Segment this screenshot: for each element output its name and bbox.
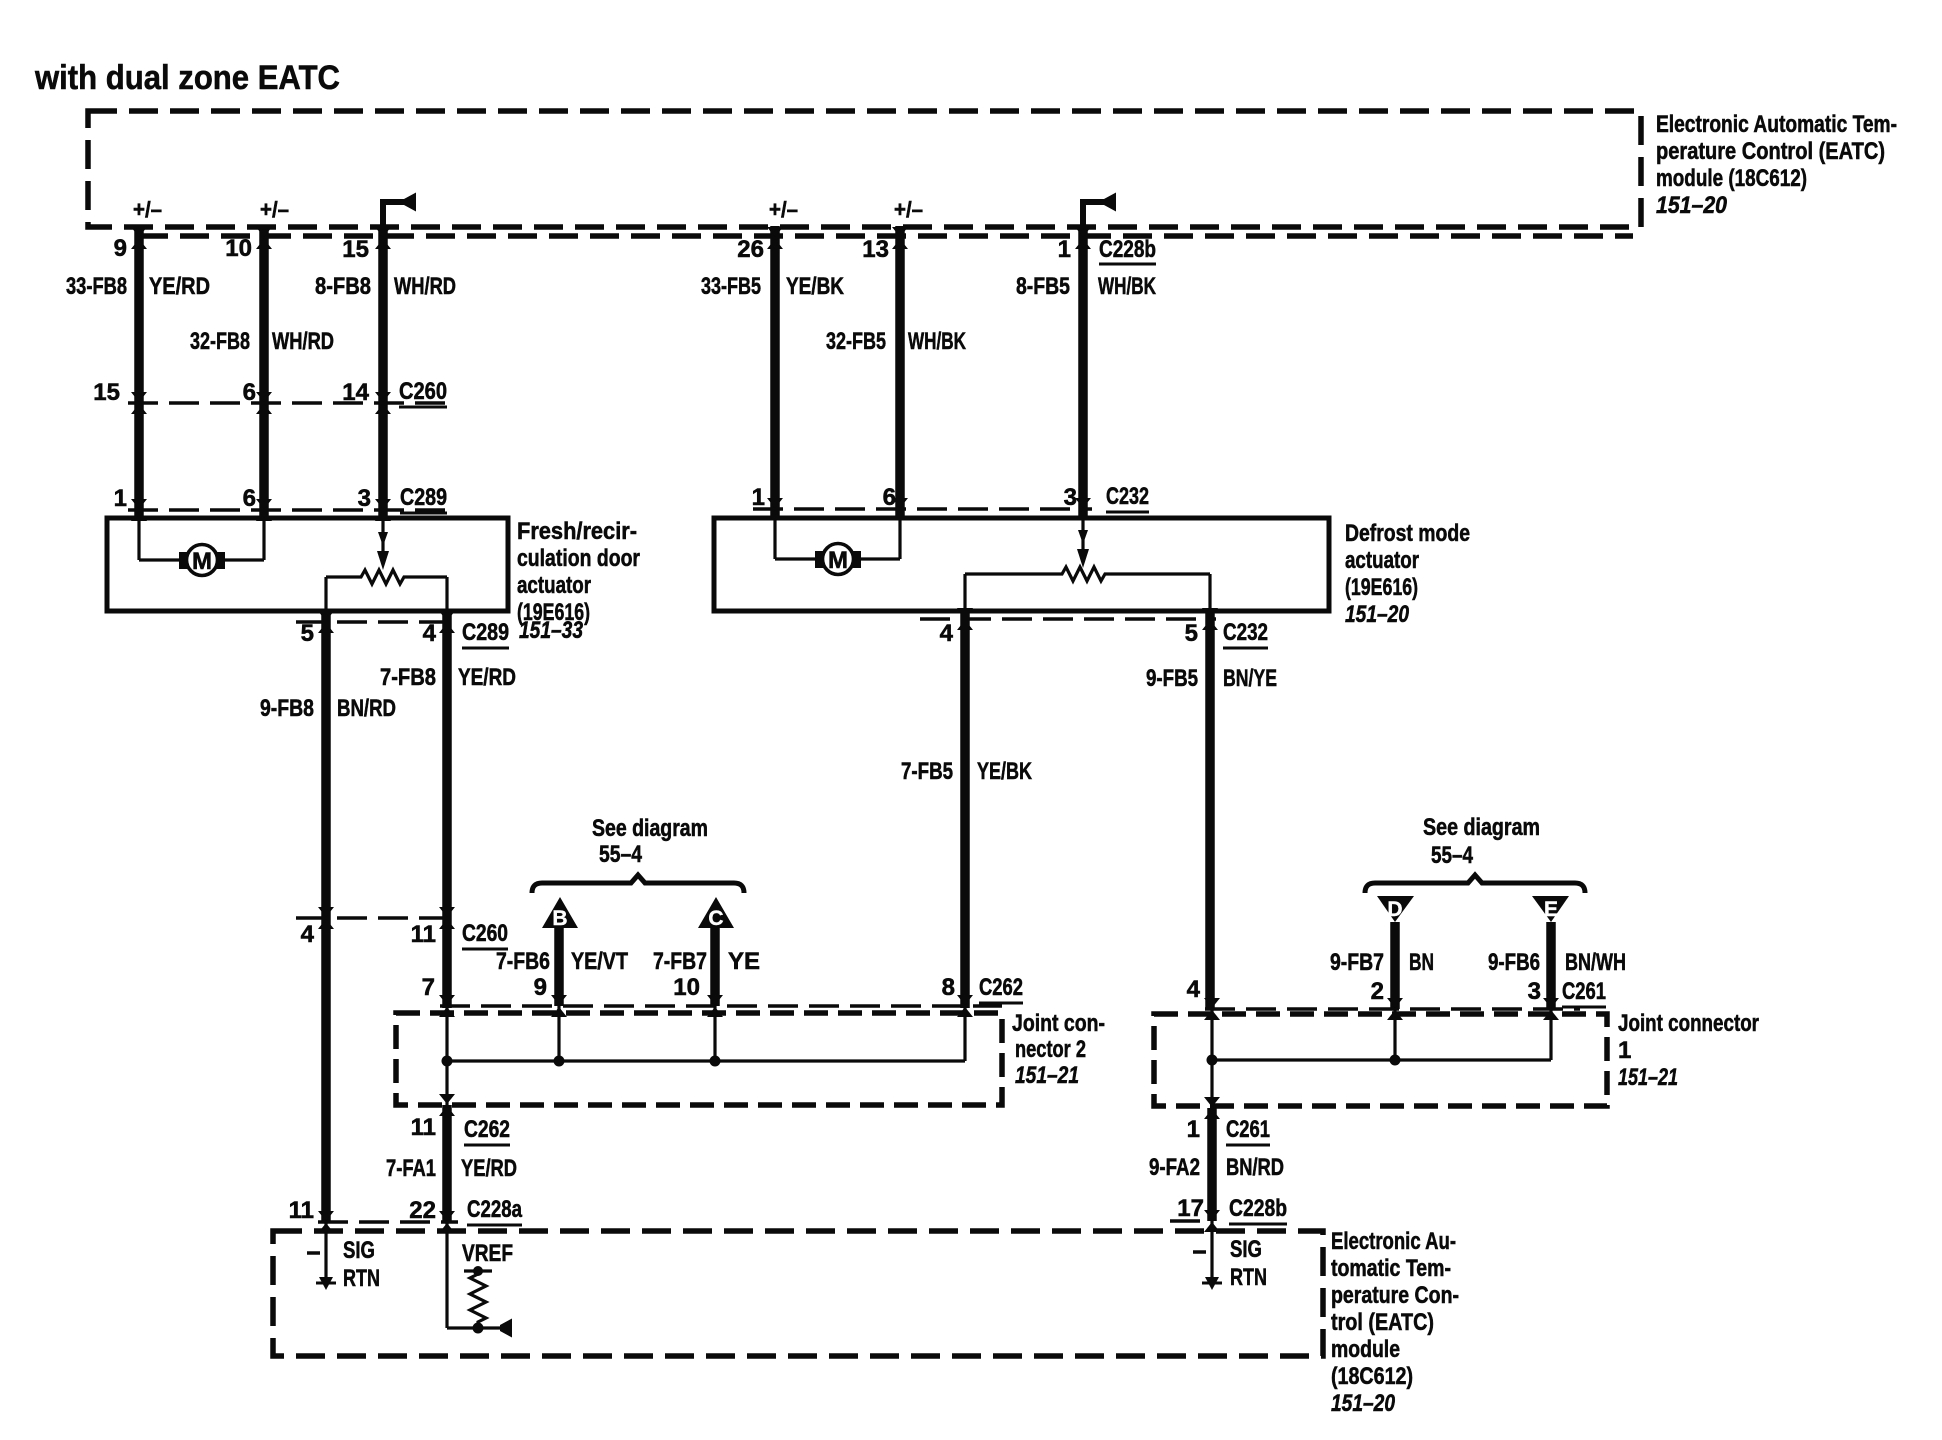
svg-text:tomatic Tem-: tomatic Tem-	[1331, 1255, 1451, 1282]
svg-text:6: 6	[243, 379, 256, 406]
potentiometer right actuator	[965, 518, 1210, 611]
triangle connector E	[1532, 896, 1569, 1009]
svg-text:BN: BN	[1409, 949, 1434, 976]
svg-text:trol (EATC): trol (EATC)	[1331, 1309, 1434, 1336]
svg-text:9-FB8: 9-FB8	[260, 695, 314, 722]
svg-text:4: 4	[1187, 976, 1201, 1003]
connector C232 name	[1106, 483, 1149, 512]
svg-text:C289: C289	[400, 484, 447, 511]
connector C232 name lower	[1223, 619, 1268, 648]
svg-text:33-FB8: 33-FB8	[66, 273, 127, 300]
joint connector 1 internal bus	[1207, 1009, 1552, 1108]
svg-text:6: 6	[243, 485, 256, 512]
feedback arrow above wire 15	[383, 193, 416, 232]
svg-text:See diagram: See diagram	[592, 815, 708, 842]
svg-text:YE/RD: YE/RD	[461, 1155, 517, 1182]
connector C289 line upper	[128, 508, 450, 512]
svg-text:26: 26	[737, 236, 764, 263]
label EATC module top right	[1656, 111, 1897, 219]
EATC module bottom dashed box	[273, 1231, 1323, 1356]
svg-text:7-FB5: 7-FB5	[901, 758, 953, 785]
svg-text:151–21: 151–21	[1618, 1064, 1678, 1091]
svg-text:BN/YE: BN/YE	[1223, 665, 1277, 692]
connector C228b top label	[1099, 236, 1156, 264]
svg-text:+/–: +/–	[133, 197, 162, 222]
motor M left actuator	[139, 518, 264, 576]
svg-text:WH/RD: WH/RD	[272, 328, 334, 355]
connector C228b name lower	[1229, 1195, 1287, 1224]
svg-text:M: M	[828, 547, 848, 574]
svg-text:11: 11	[411, 1114, 436, 1141]
triangle connector C	[698, 897, 734, 1006]
svg-text:(18C612): (18C612)	[1331, 1363, 1413, 1390]
triangle connector B	[542, 897, 578, 1006]
svg-text:13: 13	[862, 236, 889, 263]
svg-text:14: 14	[342, 379, 369, 406]
svg-text:7-FA1: 7-FA1	[386, 1155, 436, 1182]
svg-text:22: 22	[409, 1197, 436, 1224]
svg-text:C262: C262	[979, 974, 1023, 1001]
svg-text:9-FB7: 9-FB7	[1330, 949, 1384, 976]
svg-text:C261: C261	[1226, 1116, 1270, 1143]
svg-text:7: 7	[422, 974, 435, 1001]
potentiometer left actuator	[326, 518, 447, 611]
svg-text:8-FB8: 8-FB8	[315, 273, 371, 300]
feedback arrow above wire 1 (C228b)	[1083, 193, 1116, 232]
svg-text:perature Con-: perature Con-	[1331, 1282, 1459, 1309]
svg-text:7-FB7: 7-FB7	[653, 948, 707, 975]
svg-text:Fresh/recir-: Fresh/recir-	[517, 518, 637, 545]
svg-text:4: 4	[940, 620, 954, 647]
svg-text:RTN: RTN	[343, 1265, 380, 1292]
svg-text:C228b: C228b	[1229, 1195, 1287, 1222]
svg-text:4: 4	[423, 620, 437, 647]
svg-text:C261: C261	[1562, 978, 1606, 1005]
svg-text:11: 11	[289, 1197, 314, 1224]
svg-text:4: 4	[301, 921, 315, 948]
svg-text:8-FB5: 8-FB5	[1016, 273, 1070, 300]
triangle connector D	[1377, 896, 1414, 1009]
Joint connector 2 dashed box	[396, 1013, 1002, 1105]
wire 7-FB5 YE/BK	[960, 611, 970, 1008]
svg-text:8: 8	[942, 974, 955, 1001]
connector C262 name	[979, 974, 1023, 1003]
svg-text:32-FB8: 32-FB8	[190, 328, 250, 355]
svg-text:9-FB6: 9-FB6	[1488, 949, 1540, 976]
svg-text:Joint connector: Joint connector	[1618, 1010, 1759, 1037]
svg-text:33-FB5: 33-FB5	[701, 273, 761, 300]
svg-text:32-FB5: 32-FB5	[826, 328, 886, 355]
svg-text:3: 3	[1528, 978, 1541, 1005]
svg-text:7-FB6: 7-FB6	[496, 948, 550, 975]
wire 32-FB8 WH/RD (pin 10)	[259, 226, 269, 518]
wire 9-FA2 BN/RD	[1207, 1108, 1217, 1221]
svg-text:perature Control (EATC): perature Control (EATC)	[1656, 138, 1885, 165]
svg-text:B: B	[552, 907, 567, 930]
svg-text:C260: C260	[399, 378, 447, 405]
svg-text:BN/WH: BN/WH	[1565, 949, 1626, 976]
wire 7-FB8 YE/RD	[442, 611, 452, 1008]
svg-text:3: 3	[358, 485, 371, 512]
svg-text:151–20: 151–20	[1656, 192, 1728, 219]
wire 33-FB5 YE/BK (pin 26)	[770, 226, 780, 518]
svg-text:C232: C232	[1223, 619, 1268, 646]
connector C228a name	[467, 1196, 522, 1225]
connector C262 pin line	[440, 1004, 1002, 1008]
svg-text:151–33: 151–33	[519, 617, 584, 644]
Defrost mode actuator box	[714, 518, 1329, 611]
wire 8-FB5 WH/BK (pin 1)	[1078, 231, 1088, 518]
see diagram 55-4 left	[532, 815, 744, 893]
svg-text:Joint con-: Joint con-	[1012, 1010, 1105, 1037]
svg-text:1: 1	[1618, 1037, 1631, 1064]
svg-text:1: 1	[752, 484, 765, 511]
wire 9-FB8 BN/RD	[321, 611, 331, 1222]
svg-text:(19E616): (19E616)	[1345, 574, 1418, 601]
svg-text:6: 6	[883, 484, 896, 511]
connector C261 name lower	[1226, 1116, 1270, 1145]
svg-text:nector 2: nector 2	[1015, 1036, 1086, 1063]
connector C260 line lower	[296, 916, 455, 920]
svg-text:YE/VT: YE/VT	[571, 948, 628, 975]
connector C260 name	[399, 378, 447, 407]
joint connector 2 internal bus	[442, 1006, 966, 1105]
wire 9-FB5 BN/YE	[1205, 611, 1215, 1010]
connector C228b line lower	[1170, 1219, 1205, 1223]
connector C228 dashed line below module	[139, 233, 1633, 239]
svg-text:C232: C232	[1106, 483, 1149, 510]
Fresh/recirculation door actuator box	[107, 518, 508, 611]
connector C261 name	[1562, 978, 1606, 1007]
svg-text:9-FA2: 9-FA2	[1149, 1154, 1200, 1181]
svg-text:+/–: +/–	[260, 197, 289, 222]
crossing marks top connector line	[131, 227, 147, 249]
svg-text:9-FB5: 9-FB5	[1146, 665, 1198, 692]
connector C228a line	[318, 1220, 458, 1224]
svg-text:YE/RD: YE/RD	[149, 273, 210, 300]
connector C232 line upper	[753, 507, 1092, 511]
svg-text:Electronic Automatic Tem-: Electronic Automatic Tem-	[1656, 111, 1897, 138]
connector C260 name lower	[462, 920, 508, 949]
svg-text:10: 10	[673, 974, 700, 1001]
wire 7-FA1 YE/RD	[442, 1105, 452, 1222]
svg-text:SIG: SIG	[343, 1237, 375, 1264]
svg-text:E: E	[1544, 898, 1558, 921]
Joint connector 1 dashed box	[1154, 1014, 1607, 1106]
label Defrost mode actuator	[1345, 520, 1470, 628]
SIG RTN ground right	[1193, 1221, 1267, 1291]
svg-text:55–4: 55–4	[599, 841, 643, 868]
svg-text:55–4: 55–4	[1431, 842, 1474, 869]
svg-text:WH/BK: WH/BK	[908, 328, 966, 355]
connector C289 name lower	[462, 619, 509, 648]
svg-text:Electronic Au-: Electronic Au-	[1331, 1228, 1456, 1255]
wire 33-FB8 YE/RD (pin 9)	[134, 226, 144, 518]
svg-text:WH/BK: WH/BK	[1098, 273, 1156, 300]
label Joint connector 2	[1012, 1010, 1105, 1089]
svg-text:1: 1	[1058, 236, 1071, 263]
svg-text:YE/BK: YE/BK	[977, 758, 1032, 785]
svg-text:actuator: actuator	[1345, 547, 1419, 574]
svg-text:5: 5	[1185, 620, 1198, 647]
svg-text:11: 11	[411, 921, 436, 948]
connector C262 name lower	[464, 1116, 510, 1145]
label Fresh/recirculation door actuator	[517, 518, 640, 626]
svg-text:M: M	[192, 548, 212, 575]
svg-text:YE/BK: YE/BK	[786, 273, 845, 300]
svg-text:9: 9	[534, 974, 547, 1001]
svg-text:BN/RD: BN/RD	[1226, 1154, 1284, 1181]
svg-text:1: 1	[1187, 1116, 1200, 1143]
svg-text:C289: C289	[462, 619, 509, 646]
svg-text:17: 17	[1177, 1195, 1204, 1222]
svg-text:C262: C262	[464, 1116, 510, 1143]
motor M right actuator	[775, 518, 900, 575]
svg-text:151–20: 151–20	[1345, 601, 1410, 628]
svg-text:+/–: +/–	[894, 197, 923, 222]
label EATC module bottom	[1331, 1228, 1459, 1417]
svg-text:C: C	[708, 907, 723, 930]
VREF resistor	[447, 1222, 513, 1338]
svg-text:VREF: VREF	[462, 1240, 513, 1267]
svg-text:2: 2	[1371, 978, 1384, 1005]
svg-text:15: 15	[342, 236, 369, 263]
svg-text:YE/RD: YE/RD	[458, 664, 516, 691]
svg-text:1: 1	[114, 485, 127, 512]
svg-text:15: 15	[93, 379, 120, 406]
wire 32-FB5 WH/BK (pin 13)	[895, 226, 905, 518]
svg-text:151–20: 151–20	[1331, 1390, 1396, 1417]
svg-text:Defrost mode: Defrost mode	[1345, 520, 1470, 547]
svg-text:10: 10	[225, 235, 252, 262]
connector C289 line lower	[296, 620, 455, 624]
svg-text:3: 3	[1064, 484, 1077, 511]
svg-text:module: module	[1331, 1336, 1400, 1363]
svg-text:WH/RD: WH/RD	[394, 273, 456, 300]
connector C232 line lower	[920, 617, 1216, 621]
svg-text:C228b: C228b	[1099, 236, 1156, 263]
svg-text:5: 5	[301, 620, 314, 647]
svg-text:module (18C612): module (18C612)	[1656, 165, 1807, 192]
svg-text:151–21: 151–21	[1015, 1062, 1079, 1089]
connector C289 name	[400, 484, 447, 513]
label Joint connector 1	[1618, 1010, 1759, 1091]
connector C261 pin line	[1205, 1007, 1580, 1011]
svg-text:9: 9	[114, 235, 127, 262]
svg-text:C228a: C228a	[467, 1196, 522, 1223]
svg-text:SIG: SIG	[1230, 1236, 1262, 1263]
svg-text:7-FB8: 7-FB8	[380, 664, 436, 691]
connector C260 line upper	[128, 401, 450, 405]
svg-text:with dual zone EATC: with dual zone EATC	[34, 59, 340, 97]
svg-text:C260: C260	[462, 920, 508, 947]
svg-text:+/–: +/–	[769, 197, 798, 222]
svg-text:YE: YE	[728, 948, 760, 975]
svg-text:culation door: culation door	[517, 545, 640, 572]
svg-text:BN/RD: BN/RD	[337, 695, 396, 722]
wire 8-FB8 WH/RD (pin 15)	[378, 231, 388, 518]
svg-text:D: D	[1387, 898, 1402, 921]
svg-text:RTN: RTN	[1230, 1264, 1267, 1291]
EATC module (18C612) top dashed box	[88, 111, 1641, 227]
SIG RTN ground left	[307, 1222, 380, 1292]
see diagram 55-4 right	[1365, 814, 1585, 893]
svg-text:See diagram: See diagram	[1423, 814, 1540, 841]
svg-text:actuator: actuator	[517, 572, 591, 599]
